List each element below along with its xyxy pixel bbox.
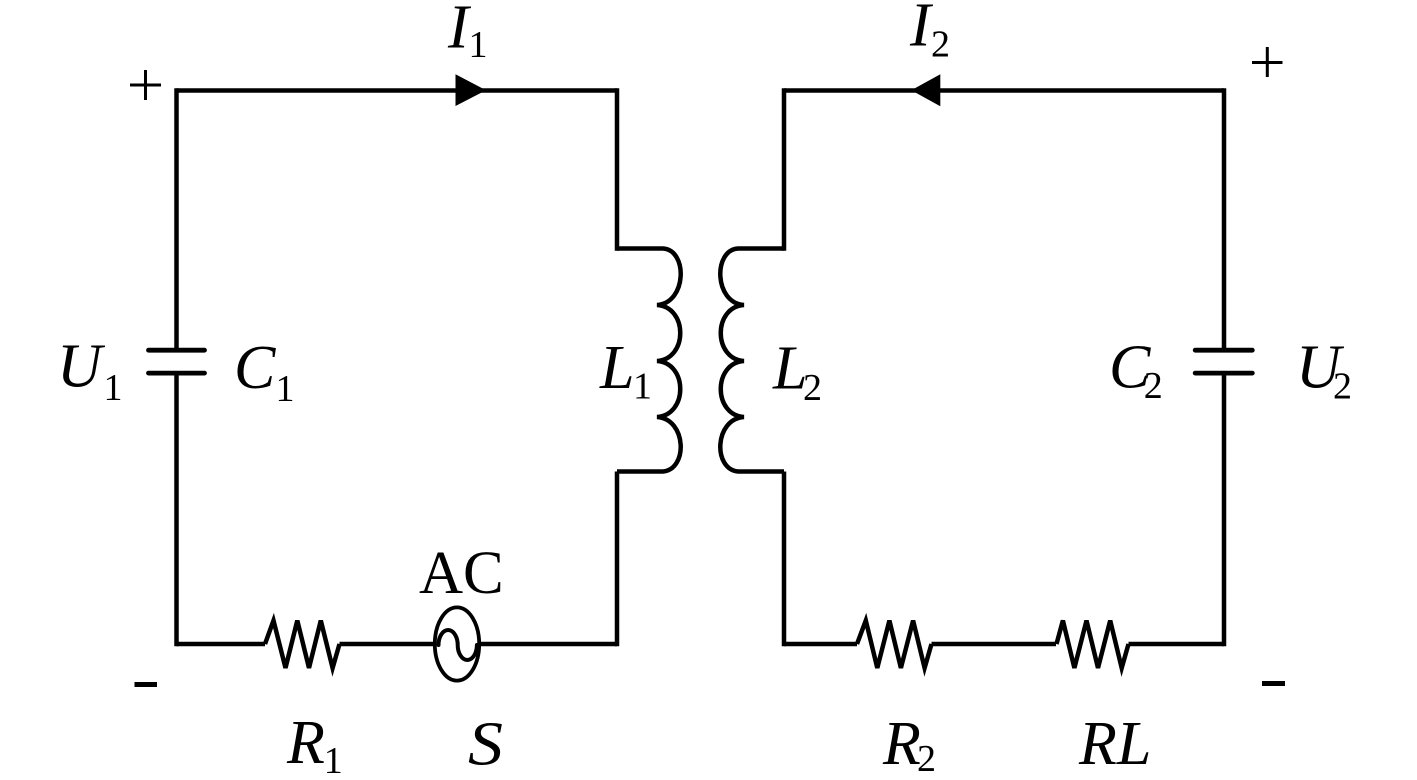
- svg-text:C: C: [234, 334, 276, 402]
- svg-text:1: 1: [104, 367, 123, 409]
- svg-text:1: 1: [276, 368, 295, 410]
- svg-text:1: 1: [324, 740, 343, 780]
- svg-text:S: S: [468, 711, 503, 779]
- svg-text:1: 1: [633, 366, 652, 408]
- svg-text:RL: RL: [1078, 710, 1151, 778]
- svg-text:2: 2: [1333, 366, 1352, 408]
- svg-text:AC: AC: [419, 540, 504, 607]
- svg-text:L: L: [599, 334, 634, 402]
- svg-text:2: 2: [931, 24, 950, 66]
- svg-text:R: R: [286, 709, 325, 777]
- svg-text:U: U: [57, 333, 106, 401]
- svg-text:1: 1: [469, 24, 488, 66]
- svg-text:R: R: [882, 710, 921, 778]
- svg-text:2: 2: [803, 367, 822, 409]
- svg-text:2: 2: [1144, 365, 1163, 407]
- svg-text:2: 2: [917, 738, 936, 780]
